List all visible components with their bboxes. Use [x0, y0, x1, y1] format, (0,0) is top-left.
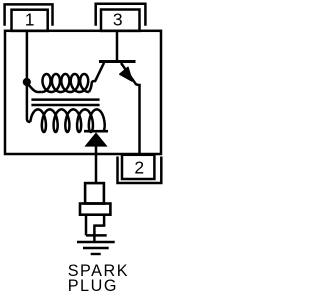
primary coil winding — [42, 74, 89, 92]
wire terminal 1 down to coil tap — [27, 31, 30, 122]
terminal 2 box — [122, 155, 154, 179]
spark plug shell left side — [85, 215, 88, 236]
ground line 2 — [83, 247, 109, 249]
transistor Q1 base bar — [99, 60, 136, 63]
terminal 3 box — [101, 10, 140, 31]
transistor Q1 emitter arrow — [120, 67, 132, 81]
ground line 1 — [77, 241, 115, 243]
transistor Q1 emitter wire — [121, 63, 140, 154]
spark plug center electrode — [93, 226, 96, 243]
transformer core line 2 — [31, 104, 99, 107]
ECU enclosure box — [5, 31, 161, 154]
wire dot to primary coil — [27, 83, 42, 93]
transformer core line 1 — [31, 98, 99, 101]
ground line 3 — [91, 253, 101, 255]
diode cathode bar — [84, 130, 108, 133]
wire diode to spark plug — [95, 146, 98, 184]
terminal 1 box — [12, 10, 48, 31]
terminal 3 bracket — [96, 4, 146, 26]
wire terminal 3 to transistor base — [116, 31, 119, 60]
svg-text:PLUG: PLUG — [68, 277, 118, 295]
terminal 1 bracket — [5, 4, 53, 25]
spark plug hex rect — [80, 204, 110, 215]
svg-text:2: 2 — [134, 157, 144, 177]
junction dot — [23, 78, 31, 86]
diode triangle — [84, 132, 107, 146]
svg-text:3: 3 — [113, 10, 123, 30]
primary coil end hook to collector — [89, 63, 104, 92]
spark plug shell right side — [103, 215, 106, 226]
svg-text:1: 1 — [25, 10, 35, 30]
secondary coil end to diode — [102, 130, 105, 133]
terminal 2 bracket — [118, 157, 162, 184]
spark plug gap bar B — [86, 234, 107, 237]
secondary coil winding — [30, 109, 104, 132]
spark plug gap bar A — [93, 224, 105, 227]
spark plug insulator rect — [85, 183, 104, 203]
